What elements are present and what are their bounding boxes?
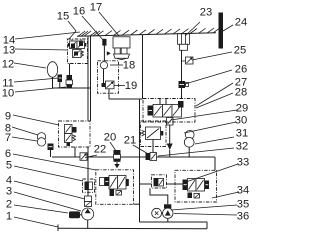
svg-text:9: 9 [5, 111, 11, 123]
svg-text:29: 29 [236, 103, 248, 115]
svg-text:17: 17 [90, 2, 102, 14]
svg-text:13: 13 [3, 45, 15, 57]
svg-text:5: 5 [6, 160, 12, 172]
svg-text:36: 36 [237, 211, 249, 223]
svg-text:26: 26 [235, 64, 247, 76]
svg-text:24: 24 [235, 17, 247, 29]
svg-text:6: 6 [5, 148, 11, 160]
svg-text:28: 28 [235, 87, 247, 99]
svg-text:30: 30 [235, 115, 247, 127]
svg-text:16: 16 [73, 6, 85, 18]
svg-text:35: 35 [237, 199, 249, 211]
svg-text:20: 20 [104, 132, 116, 144]
svg-text:22: 22 [94, 144, 106, 156]
svg-text:10: 10 [2, 88, 14, 100]
svg-text:12: 12 [2, 59, 14, 71]
svg-text:31: 31 [236, 128, 248, 140]
svg-text:3: 3 [6, 186, 12, 198]
svg-text:19: 19 [125, 80, 137, 92]
svg-text:2: 2 [6, 199, 12, 211]
svg-text:23: 23 [200, 7, 212, 19]
svg-text:34: 34 [237, 185, 249, 197]
svg-text:33: 33 [237, 157, 249, 169]
svg-text:32: 32 [236, 141, 248, 153]
svg-text:21: 21 [124, 135, 136, 147]
svg-text:25: 25 [234, 45, 246, 57]
svg-text:15: 15 [57, 11, 69, 23]
svg-text:18: 18 [123, 60, 135, 72]
svg-text:7: 7 [5, 132, 11, 144]
svg-text:1: 1 [6, 211, 12, 223]
